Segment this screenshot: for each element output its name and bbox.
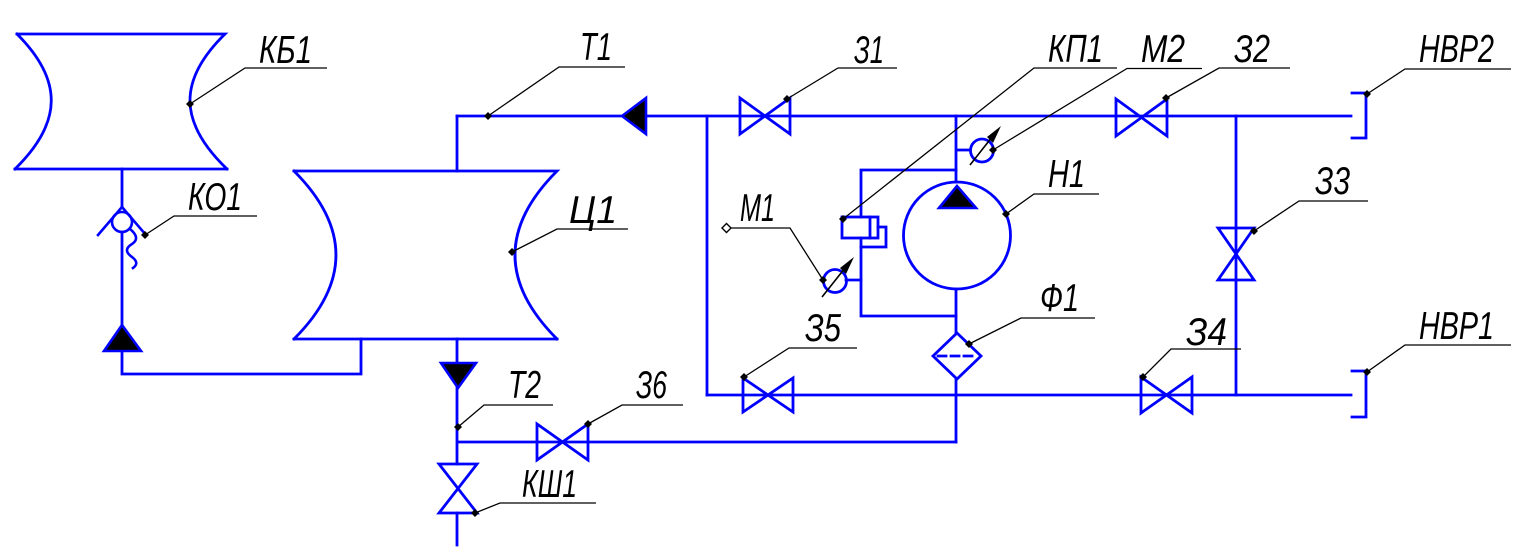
wire riser filter-pump [955,116,958,442]
svg-text:Ф1: Ф1 [1040,277,1079,320]
flow arrow left (main line) [622,98,646,134]
leader КП1 [843,68,1117,219]
svg-text:КБ1: КБ1 [259,29,312,72]
svg-text:З2: З2 [1234,28,1270,71]
svg-text:З1: З1 [854,29,884,72]
svg-text:З5: З5 [805,307,841,350]
valve Z6 [537,424,588,460]
wire Z6 line [458,441,956,444]
flow arrow up (KO1 branch) [104,325,141,351]
dot Ф1 [965,340,973,348]
leader Т2 [458,405,553,427]
valve Z2 [1116,99,1167,136]
wire bypass branch (relief) [861,170,956,316]
gauge M2 body [971,139,994,162]
valve Z1 [740,98,790,134]
leader КО1 [145,216,257,235]
wire main top line [457,115,1351,118]
wire left branch vertical [706,116,709,395]
leader КБ1 [190,68,327,104]
svg-text:КП1: КП1 [1048,28,1103,71]
node marker at M1 label [722,224,731,233]
leader НВР2 [1367,69,1511,94]
svg-text:Ц1: Ц1 [569,189,617,232]
wire KB1 bottom to KO1 [121,169,124,207]
leader З2 [1166,68,1290,98]
svg-text:КО1: КО1 [188,176,242,219]
pump H1 body [904,182,1011,289]
dot М2 [989,146,997,154]
wire KO1 down, right, up into tank C1 [122,232,361,374]
needle arrowhead M2 [987,126,1001,143]
svg-text:Т2: Т2 [508,364,541,407]
dot З3 [1250,227,1258,235]
leader З1 [787,68,897,99]
valve Z3 [1218,228,1254,280]
needle of gauge M2 [970,132,996,165]
wire right vertical (Z3 branch) [1235,116,1238,395]
flow arrow up (pump H1) [939,186,976,208]
svg-text:НВР1: НВР1 [1419,305,1494,348]
svg-text:З6: З6 [636,364,667,407]
dot КП1 [839,215,847,223]
dot НВР2 [1363,90,1371,98]
dot З2 [1162,94,1170,102]
valve KSh1 [439,464,477,513]
svg-text:НВР2: НВР2 [1419,28,1494,71]
leader З5 [744,348,857,377]
check valve KO1 [98,207,146,268]
dot З4 [1139,373,1147,381]
flow arrow down (under C1) [441,363,476,388]
gauge M1 body [824,270,847,293]
svg-text:М1: М1 [740,187,775,230]
dot КШ1 [471,509,479,517]
leader Ц1 [512,229,628,252]
dot М1 [819,276,827,284]
dot З1 [783,95,791,103]
dot Ц1 [508,248,516,256]
leader Ф1 [969,318,1095,344]
svg-text:З3: З3 [1315,160,1350,203]
leader М1 [726,228,823,280]
leader З3 [1254,201,1368,231]
tank KB1 [15,34,227,169]
dot Т1 node [484,112,492,120]
leader Т1 [488,67,625,116]
gauge stub M1 [846,279,861,282]
leader М2 [993,69,1202,151]
dot З6 [584,420,592,428]
needle arrowhead M1 [840,257,854,274]
leader КШ1 [475,503,596,513]
tank C1 [294,171,557,339]
port NVR2 [1352,93,1366,138]
port NVR1 [1352,371,1366,417]
wire bottom distribution line [707,394,1351,397]
filter F1 [933,333,981,379]
svg-text:З4: З4 [1186,311,1227,354]
leader З4 [1143,349,1241,377]
dot З5 [740,373,748,381]
leader З6 [588,405,683,424]
dot Т2 node [454,423,462,431]
leader Н1 [1006,194,1099,214]
svg-text:Н1: Н1 [1048,153,1085,196]
svg-text:М2: М2 [1141,28,1185,71]
wire C1 bottom to T2 and KSh1 [456,339,459,545]
svg-text:КШ1: КШ1 [522,463,577,506]
leader НВР1 [1367,345,1511,372]
dot НВР1 [1363,368,1371,376]
dot КБ1 [186,100,194,108]
valve Z4 [1141,377,1192,413]
relief valve KP1 [842,217,886,247]
valve Z5 [743,378,793,412]
dot Н1 [1002,210,1010,218]
leader lines [145,67,1511,513]
svg-text:Т1: Т1 [580,26,612,69]
gauge stub M2 [957,149,970,152]
wire T1 vertical [456,116,459,171]
needle of gauge M1 [822,263,849,297]
leader dots [141,90,1371,517]
dot КО1 [141,231,149,239]
